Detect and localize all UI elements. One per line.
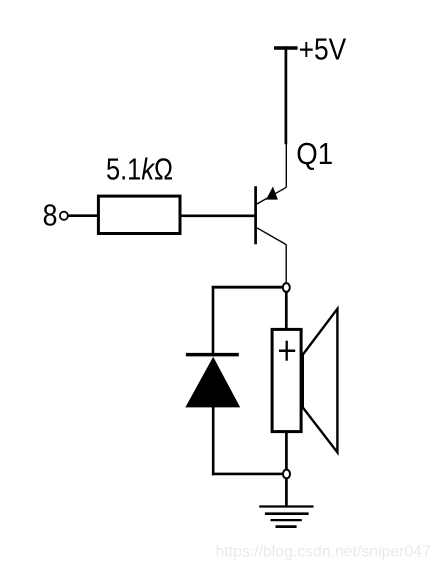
wire node A to speaker LS1	[285, 292, 288, 330]
ground	[259, 507, 313, 527]
wire bottom horizontal to node B	[212, 473, 283, 476]
wire +5V rail to Q1 emitter lead	[285, 46, 288, 144]
speaker LS1 body	[272, 329, 301, 431]
svg-text:https://blog.csdn.net/sniper04: https://blog.csdn.net/sniper047	[216, 543, 431, 560]
speaker LS1 horn	[303, 309, 338, 453]
wire node B to ground	[285, 478, 288, 507]
wire flyback branch left vertical down	[212, 286, 215, 354]
speaker LS1 plus marking	[279, 341, 295, 361]
diode D1 body triangle	[185, 357, 240, 408]
diode D1 cathode bar	[186, 353, 239, 357]
node A (collector junction)	[283, 283, 290, 292]
terminal pin 8 circle	[60, 212, 68, 220]
transistor Q1	[256, 144, 287, 284]
wire resistor R1 to Q1 base	[180, 214, 254, 217]
wire node A to flyback branch (top horizontal)	[212, 286, 283, 289]
wire diode D1 anode down	[212, 407, 215, 476]
svg-text:5.1kΩ: 5.1kΩ	[106, 152, 173, 187]
svg-text:8: 8	[43, 199, 58, 233]
svg-text:Q1: Q1	[296, 136, 333, 171]
power rail +5V bar	[274, 46, 298, 49]
svg-text:+5V: +5V	[299, 33, 347, 67]
resistor R1 body	[98, 196, 180, 233]
node B (ground junction)	[283, 470, 290, 479]
wire pin 8 to resistor R1	[68, 214, 98, 217]
wire speaker LS1 to node B	[285, 431, 288, 470]
